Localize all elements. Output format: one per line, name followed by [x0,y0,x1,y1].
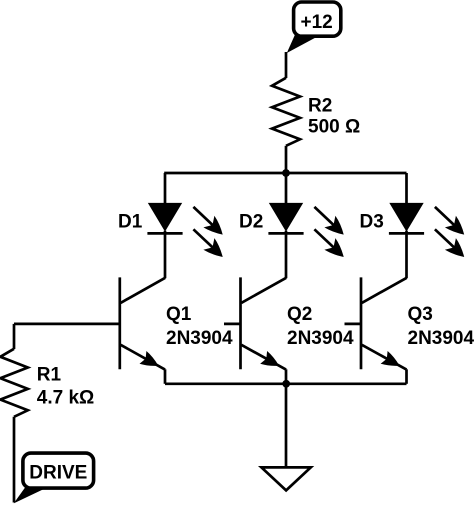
wire top bus to D1 anode [164,173,167,204]
resistor R1 [0,349,28,417]
wire D1 cathode to Q1 collector [164,231,167,279]
svg-text:DRIVE: DRIVE [29,462,87,483]
wire top bus to D3 anode [405,173,408,204]
wire Q2 emitter to bottom bus [285,369,288,384]
ground [261,467,310,490]
wire Q1 emitter to bottom bus [164,369,167,384]
wire top bus [164,172,406,175]
svg-text:500 Ω: 500 Ω [308,116,360,137]
wire top bus to D2 anode [285,173,288,204]
svg-text:Q2: Q2 [287,304,312,325]
resistor R2 [272,78,300,146]
LED D2 [268,203,343,257]
wire D2 cathode to Q2 collector [285,231,288,279]
svg-text:Q3: Q3 [408,304,433,325]
svg-text:+12: +12 [300,12,332,33]
svg-text:4.7 kΩ: 4.7 kΩ [37,388,95,409]
wire R2 to top bus [285,146,288,173]
LED D1 [147,203,222,257]
wire +12 to R2 [285,52,288,78]
junction node bottom [282,380,290,388]
LED D3 [389,203,464,257]
wire D3 cathode to Q3 collector [405,231,408,279]
svg-text:D2: D2 [239,211,263,232]
net flag +12 [287,2,341,53]
svg-text:R1: R1 [37,365,62,386]
svg-text:Q1: Q1 [166,304,192,325]
wire bottom emitter bus [165,382,407,385]
junction node top [282,169,290,177]
svg-text:D3: D3 [360,211,384,232]
svg-text:R2: R2 [308,95,332,116]
net flag DRIVE [14,453,94,503]
wire bus to ground [285,384,288,468]
wire R1 to DRIVE [13,417,16,503]
svg-text:2N3904: 2N3904 [287,328,354,349]
svg-text:D1: D1 [118,211,143,232]
transistor Q1 [120,277,165,369]
wire Q3 emitter to bottom bus [405,369,408,384]
transistor Q2 [224,277,286,369]
wire base bus to Q1 base [14,323,120,326]
wire to R1 [13,324,16,349]
svg-text:2N3904: 2N3904 [408,328,474,349]
transistor Q3 [345,277,407,369]
svg-text:2N3904: 2N3904 [166,328,233,349]
